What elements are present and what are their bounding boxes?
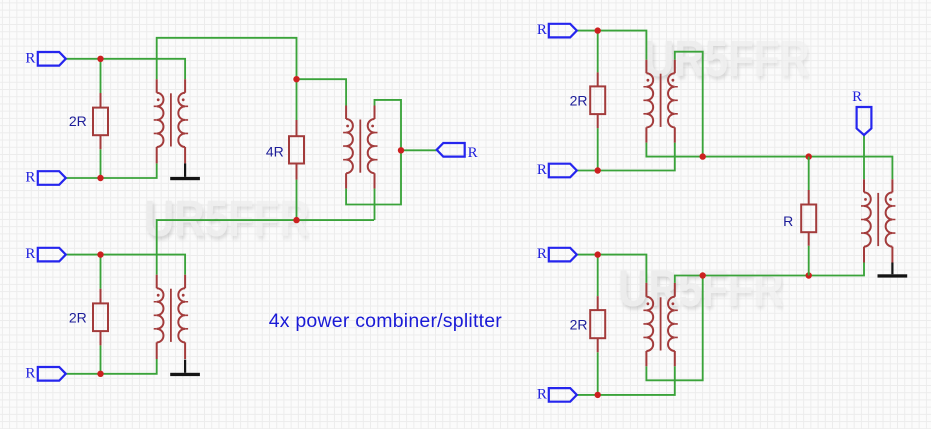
wire R balance bottom lead: [808, 246, 810, 276]
wire T3 right-winding top to output node: [375, 100, 402, 150]
wire 2R3 top lead: [597, 31, 599, 73]
port R1 input (block1 top): [38, 52, 66, 66]
junction port1/2R: [97, 56, 103, 62]
wire T3 right-winding bottom to node B: [374, 189, 376, 221]
svg-text:R: R: [537, 246, 547, 262]
wire 4R bottom to node B: [296, 180, 298, 221]
svg-text:R: R: [25, 246, 35, 262]
port R input A (block3 top): [549, 24, 577, 38]
wire R2 top lead: [100, 255, 102, 289]
svg-text:R: R: [783, 213, 793, 229]
svg-text:R: R: [537, 22, 547, 38]
port R input D (block4 bottom): [549, 388, 577, 402]
svg-text:2R: 2R: [570, 317, 588, 333]
port R4 input (block2 bottom): [38, 367, 66, 381]
junction bus2/R: [806, 272, 812, 278]
wire T5 left-winding bottom loop to bus2: [646, 276, 702, 381]
junction port3/2R: [97, 251, 103, 257]
junction node B: [293, 217, 299, 223]
wire R2 bottom lead: [100, 345, 102, 373]
label R output port: [468, 145, 478, 161]
label 4R: [266, 144, 284, 160]
junction bus1/T4: [700, 153, 706, 159]
junction portD/2R: [595, 392, 601, 398]
svg-text:2R: 2R: [570, 92, 588, 108]
wire 2R3 bottom lead: [597, 128, 599, 170]
junction portB/2R: [595, 167, 601, 173]
wire bus2: [675, 263, 864, 283]
junction port2/2R: [97, 175, 103, 181]
transformer T1 block1: [154, 79, 188, 163]
port R output right: [857, 107, 872, 135]
wire port1 to T1 right-winding top: [66, 59, 185, 80]
resistor 2R block4: [590, 296, 605, 352]
port R output: [437, 143, 465, 157]
wire T4 right-winding top loop to bus1: [675, 52, 703, 157]
label R portA: [537, 22, 547, 38]
svg-text:4R: 4R: [266, 144, 284, 160]
label R portB: [537, 162, 547, 178]
label R port1: [25, 50, 35, 66]
wire T6 port lead: [863, 135, 865, 179]
transformer T4 block3: [643, 60, 677, 143]
wire node A to 4R top: [296, 79, 298, 120]
svg-text:R: R: [852, 89, 862, 105]
wire portB to T4 right-winding bottom: [577, 143, 675, 171]
svg-text:R: R: [25, 170, 35, 186]
resistor 2R block3: [590, 72, 605, 128]
wire output node to port: [401, 149, 437, 151]
junction bus1/R: [806, 153, 812, 159]
wire T1 left-winding top to node A: [157, 38, 297, 80]
junction node A: [293, 76, 299, 82]
port R input C (block4 top): [549, 248, 577, 262]
label R portD: [537, 386, 547, 402]
label 2R block2: [69, 309, 87, 325]
svg-text:R: R: [537, 162, 547, 178]
watermark UR5FFR top-right: [644, 29, 810, 88]
svg-text:2R: 2R: [69, 309, 87, 325]
wire port4 to T2 left-winding bottom: [66, 359, 157, 374]
title text: [269, 310, 503, 332]
ground block2: [170, 360, 200, 376]
label R portC: [537, 246, 547, 262]
wire 2R4 top lead: [597, 255, 599, 297]
resistor 2R block2: [93, 289, 108, 346]
transformer T5 block4: [643, 283, 677, 366]
junction portA/2R: [595, 27, 601, 33]
wire R1 top lead: [100, 59, 102, 93]
watermark UR5FFR middle-left: [144, 189, 310, 248]
svg-text:4x power combiner/splitter: 4x power combiner/splitter: [269, 310, 503, 332]
label R port3: [25, 246, 35, 262]
junction output node: [398, 147, 404, 153]
junction portC/2R: [595, 251, 601, 257]
svg-text:R: R: [25, 50, 35, 66]
svg-text:2R: 2R: [69, 113, 87, 129]
wire portC to T5 left-winding top: [577, 255, 647, 283]
port R input B (block3 bottom): [549, 164, 577, 178]
wire port2 to T1 left-winding bottom: [66, 163, 157, 178]
transformer T6 output: [861, 179, 895, 262]
wire port3 to T2 right-winding top: [66, 255, 185, 275]
wire portA to T4 left-winding top: [577, 31, 647, 60]
ground block1: [170, 163, 200, 180]
resistor 4R: [289, 120, 304, 180]
wire portD to T5 right-winding bottom: [577, 366, 675, 395]
label R port right: [852, 89, 862, 105]
label R balance: [783, 213, 793, 229]
svg-text:R: R: [468, 145, 478, 161]
transformer T3 output: [343, 106, 377, 189]
transformer T2 block2: [154, 275, 188, 359]
wire node A to T3 left-winding top: [297, 79, 347, 105]
label 2R block1: [69, 113, 87, 129]
resistor 2R block1: [93, 93, 108, 149]
watermark UR5FFR bottom-right: [618, 259, 784, 318]
resistor R balance: [801, 190, 816, 246]
svg-text:R: R: [537, 386, 547, 402]
wire bus1: [646, 143, 892, 180]
svg-text:R: R: [25, 365, 35, 381]
label 2R block3: [570, 92, 588, 108]
label R port2: [25, 170, 35, 186]
wire R balance top lead: [808, 157, 810, 190]
port R2 input (block1 bottom): [38, 171, 66, 185]
label R port4: [25, 365, 35, 381]
wire 2R4 bottom lead: [597, 352, 599, 395]
junction bus2/T5: [700, 272, 706, 278]
label 2R block4: [570, 317, 588, 333]
ground T6: [878, 263, 908, 278]
wire node B bus to T2 left-winding top: [157, 220, 374, 275]
wire R1 bottom lead to port2 wire: [100, 149, 102, 178]
port R3 input (block2 top): [38, 248, 66, 262]
junction port4/2R: [97, 371, 103, 377]
wire T3 left-winding bottom to output node: [346, 150, 401, 204]
